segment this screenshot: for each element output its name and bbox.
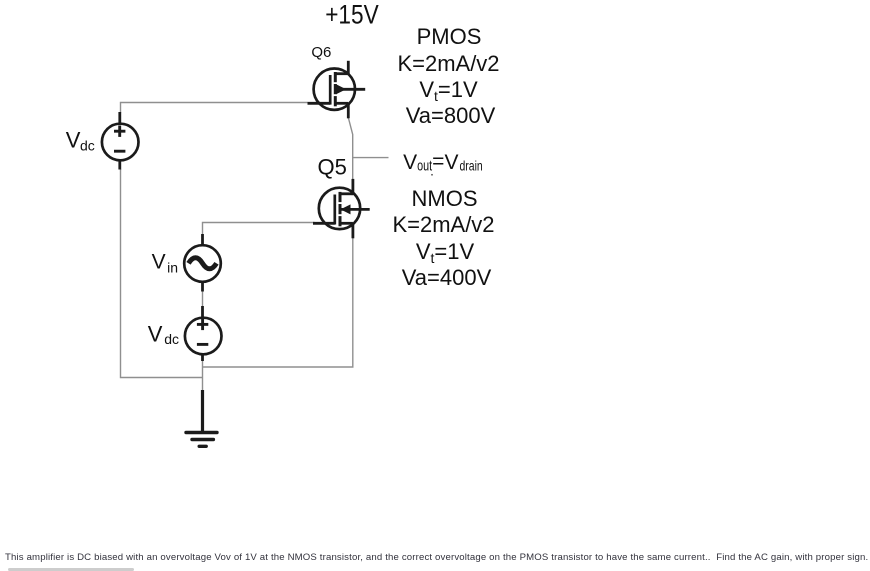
svg-text:V: V: [403, 151, 417, 174]
caption problem statement: [5, 552, 870, 563]
svg-text:V: V: [445, 151, 459, 174]
transistor Q6 (PMOS): [308, 61, 366, 119]
svg-text:Q6: Q6: [311, 44, 331, 61]
svg-text:out: out: [417, 157, 433, 174]
net +15V label: [325, 0, 379, 29]
node label Vout=Vdrain: [403, 150, 483, 176]
ground symbol: [186, 390, 217, 446]
horizontal scrollbar thumb: [8, 568, 134, 571]
wire Vin top to Q5 gate: [203, 223, 315, 235]
svg-text:Va=800V: Va=800V: [406, 103, 496, 128]
svg-text:PMOS: PMOS: [417, 24, 482, 49]
svg-text:NMOS: NMOS: [412, 186, 478, 211]
wire node Vout stub: [353, 157, 389, 159]
svg-text:Vt=1V: Vt=1V: [419, 77, 478, 104]
wire Vdc2 bottom to ground: [202, 360, 204, 390]
svg-text:Q5: Q5: [318, 154, 347, 179]
voltage source Vdc2 (bottom): [185, 306, 222, 361]
svg-text:K=2mA/v2: K=2mA/v2: [392, 212, 494, 237]
svg-text:V: V: [66, 128, 81, 153]
label PMOS parameters: [397, 24, 499, 128]
svg-text:drain: drain: [460, 157, 483, 173]
voltage source Vdc1 (top): [102, 112, 139, 170]
transistor Q5 (NMOS): [313, 179, 370, 238]
svg-text:=: =: [432, 150, 444, 173]
svg-text:Vt=1V: Vt=1V: [416, 239, 475, 266]
svg-text:in: in: [167, 260, 178, 276]
label NMOS parameters: [392, 186, 494, 290]
svg-text:dc: dc: [80, 137, 95, 153]
svg-text:K=2mA/v2: K=2mA/v2: [397, 51, 499, 76]
svg-text:dc: dc: [164, 331, 179, 347]
wire Vin bottom to Vdc2 top: [202, 291, 204, 307]
voltage source Vin (AC): [184, 234, 221, 292]
wire Q5 source to ground node: [203, 238, 353, 367]
wire Q6 source to Q5 drain: [348, 118, 352, 180]
svg-text:V: V: [152, 251, 166, 274]
svg-text:Va=400V: Va=400V: [402, 265, 492, 290]
svg-text:V: V: [148, 322, 163, 347]
wire Vdc1 bottom to ground node (left vertical + lower horizontal): [121, 169, 204, 378]
svg-text:+15V: +15V: [325, 0, 379, 29]
wire Vdc1 top to Q6 gate: [121, 103, 308, 113]
